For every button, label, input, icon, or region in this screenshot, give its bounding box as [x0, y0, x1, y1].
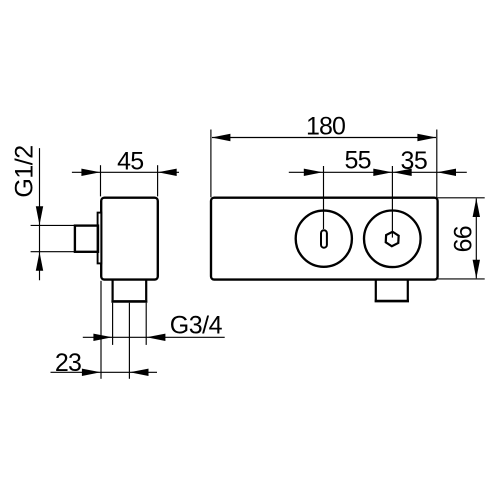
extension line: 180/35 right: [436, 130, 438, 198]
extension line: right circle center down to hex center: [391, 166, 393, 238]
extension line: 66 top: [437, 197, 485, 199]
dimension 45 extension lines: [100, 165, 102, 196]
arrow 35 left (points left, tip at right circle ext): [393, 169, 412, 176]
extension line: 66 bottom: [437, 278, 485, 280]
bottom outlet stub (front view): [375, 281, 409, 302]
dimension 66 line: [475, 199, 477, 279]
arrow G1/2 lower (points up, tip at lower ext line): [36, 252, 43, 271]
svg-text:180: 180: [306, 112, 345, 140]
arrow 55 left (points right, tip at left circle ext): [304, 169, 323, 176]
svg-text:35: 35: [400, 147, 427, 175]
arrow G3/4 right (points left, tip at outlet right ext): [147, 334, 166, 341]
left handle circle: [296, 211, 352, 267]
dimension G1/2 extension lines: [31, 224, 75, 226]
bottom outlet stub G3/4 (side view): [111, 281, 147, 302]
arrow 55 right (points right, tip at right circle ext): [373, 169, 392, 176]
hex socket in right handle: [386, 232, 399, 246]
center line of outlet down: [128, 303, 130, 379]
arrow 35 right (points left, tip at body right ext): [437, 169, 456, 176]
arrow 23 right (points left, tip at outlet center line): [130, 369, 149, 376]
arrow 23 left (points right, tip at body front ext): [82, 369, 101, 376]
extension line: outlet left edge down: [112, 303, 114, 345]
arrow 45 right (points left, tip at right ext line): [158, 169, 177, 176]
extension line: left circle center down to slot: [323, 166, 325, 229]
valve body (front view): [211, 198, 438, 280]
arrow 66 top (points up): [473, 198, 480, 217]
extension line: outlet right edge down: [145, 303, 147, 345]
right handle circle: [364, 211, 421, 268]
G1/2 leader/dimension line (vertical): [39, 148, 41, 280]
svg-text:G3/4: G3/4: [170, 311, 223, 339]
slot in left handle: [321, 230, 327, 248]
arrow G3/4 left (points right, tip at outlet left ext): [93, 334, 112, 341]
extension line: body front face (left edge) down: [100, 281, 102, 379]
svg-text:55: 55: [344, 147, 370, 175]
arrow 66 bottom (points down): [473, 260, 480, 279]
valve body (side view): [101, 198, 158, 280]
arrow 180 left (points left, tip at left ext): [212, 134, 231, 141]
dimension 45 line: [72, 171, 179, 173]
extension line: 180 left: [210, 130, 212, 198]
dimension 180 line: [212, 137, 436, 139]
svg-text:45: 45: [117, 148, 143, 176]
svg-text:G1/2: G1/2: [10, 145, 38, 197]
arrow G1/2 upper (points down, tip at upper ext line): [36, 206, 43, 225]
wall flange (side view): [98, 213, 102, 264]
dimension G3/4 line: [83, 336, 225, 338]
svg-text:66: 66: [449, 226, 477, 252]
svg-text:23: 23: [55, 349, 81, 377]
dimension 23 line: [51, 371, 158, 373]
arrow 45 left (points right, tip at left ext line): [81, 169, 100, 176]
inlet spout stub G1/2 (side view): [75, 226, 98, 252]
dimension 55/35 line: [289, 171, 467, 173]
arrow 180 right (points right, tip at right ext): [417, 134, 436, 141]
